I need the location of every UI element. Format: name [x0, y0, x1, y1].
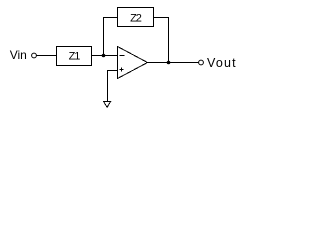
- junction output node: [167, 61, 171, 65]
- ground: [104, 102, 111, 108]
- wire Vin terminal to Z1: [36, 55, 56, 57]
- svg-text:Z2: Z2: [130, 13, 142, 25]
- impedance Z1: [57, 47, 92, 66]
- wire Z2 right down to output node: [154, 18, 169, 63]
- node Vin terminal: [32, 53, 37, 58]
- svg-text:Z1: Z1: [69, 51, 81, 63]
- svg-text:Vout: Vout: [207, 56, 237, 70]
- node Vout terminal: [199, 60, 204, 65]
- op-amp U1: [118, 47, 148, 79]
- impedance Z2: [118, 8, 154, 27]
- wire op-amp output to Vout terminal: [148, 62, 199, 64]
- wire Z1 to inverting input: [92, 55, 118, 57]
- svg-text:Vin: Vin: [10, 48, 27, 62]
- wire non-inverting input to ground: [108, 71, 118, 103]
- junction inverting-input node: [102, 54, 106, 58]
- wire junction up to Z2 left: [104, 18, 118, 56]
